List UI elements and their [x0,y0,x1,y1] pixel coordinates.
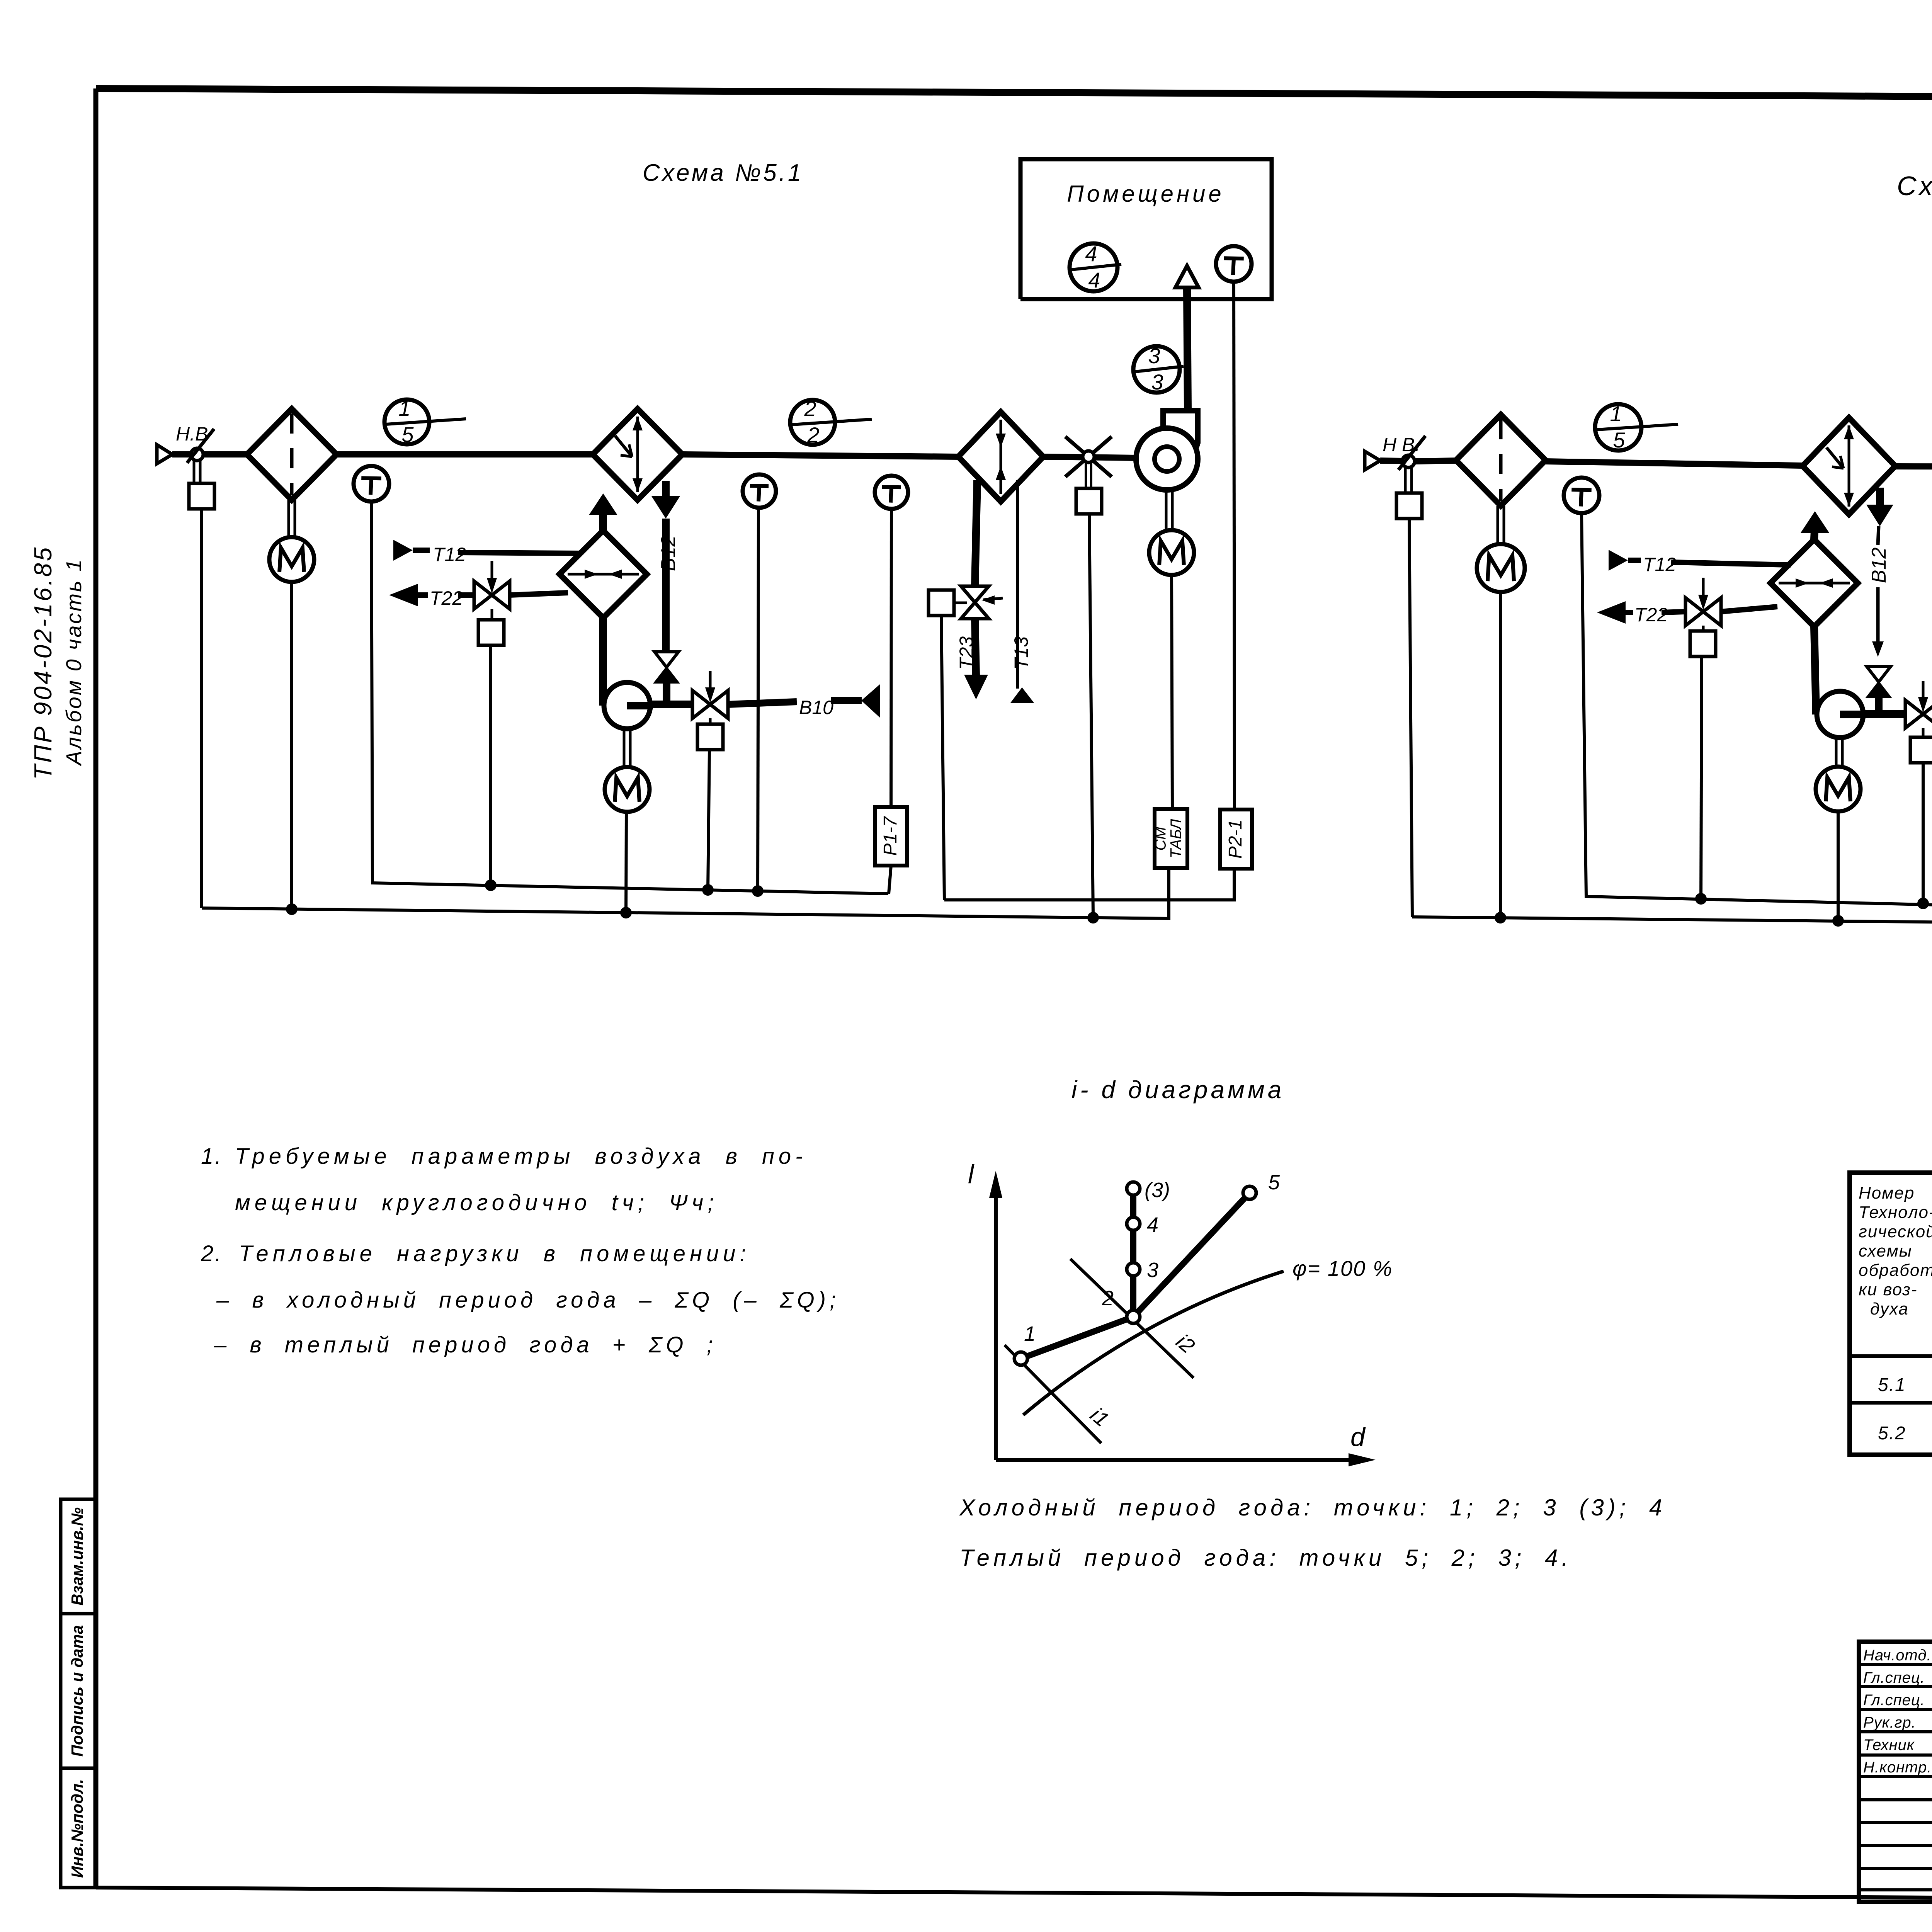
box Р1-7 5.1 [875,807,907,866]
heat recovery unit 5.2 [1770,539,1858,627]
outdoor air inlet Н.В 5.2 [1365,451,1380,470]
svg-text:4: 4 [1088,268,1100,292]
upper bus 5.2 [1582,513,1932,909]
svg-text:1: 1 [398,396,410,420]
sensor line T12 5.1 [393,540,413,561]
svg-text:2: 2 [804,396,816,421]
upper bus 5.1 [371,502,888,894]
pipe B10 5.1 [728,702,797,704]
label circle 1/5 5.2 [1595,404,1641,451]
inlet damper 5.1 [191,448,203,461]
motor M pump 5.2 [1835,738,1838,767]
upper bus right segment 5.1 [944,870,1234,900]
three-way valve T22 5.2 [1685,598,1703,626]
svg-text:Инв.№подл.: Инв.№подл. [68,1779,86,1878]
wire T2 to upper bus 5.1 [758,508,759,890]
svg-text:3: 3 [1151,370,1163,394]
process line i1 [1005,1345,1101,1443]
svg-text:духа: духа [1870,1299,1909,1318]
lower bus 5.1 [202,868,1169,918]
svg-text:Схема №5.1: Схема №5.1 [643,160,803,186]
svg-text:Помещение: Помещение [1067,181,1225,207]
sensor T2 5.1 [743,474,776,508]
wire pump M to lower bus 5.1 [626,812,626,913]
svg-text:(3): (3) [1145,1179,1170,1202]
inlet damper 5.2 [1402,455,1415,468]
main duct 5.1 [203,451,247,457]
process line i2 [1070,1259,1194,1378]
pump discharge to B10 valve 5.2 [1863,710,1906,718]
outdoor air inlet Н.В 5.1 [157,445,172,464]
svg-text:В10: В10 [799,697,833,718]
wire B10 valve to upper bus 5.2 [1922,763,1925,901]
svg-text:Схема № 5.2: Схема № 5.2 [1897,171,1932,201]
wire T3 to Р1-7 5.1 [891,509,891,807]
i-d axes [994,1182,998,1460]
wire T22 valve to upper bus 5.1 [489,645,492,885]
indicator 3/3 5.1 [1133,346,1180,393]
svg-text:– в теплый период года + Σ: – в теплый период года + ΣQ ; [214,1332,717,1357]
svg-text:2: 2 [1102,1287,1114,1310]
wire B10 valve to upper bus 5.1 [708,750,709,889]
wire inlet damper to lower bus 5.2 [1409,519,1412,917]
svg-text:Техник: Техник [1863,1736,1915,1753]
svg-text:В12: В12 [657,536,680,571]
indicator 4/4 room 5.1 [1070,243,1117,291]
svg-text:d: d [1350,1422,1366,1452]
svg-text:Р2-1: Р2-1 [1225,820,1246,859]
wire filter M to lower bus 5.1 [290,582,293,910]
sensor line T13 5.1 [1016,480,1019,689]
wire T22 valve to upper bus 5.2 [1701,656,1702,899]
recovery supply riser up 5.2 [1814,522,1815,539]
motor M fan 5.1 [1165,490,1168,530]
stamp box Инв.№подл. [61,1768,96,1888]
heat recovery unit 5.1 [560,531,647,618]
svg-text:i- d диаграмма: i- d диаграмма [1071,1076,1284,1104]
sensor T1 5.2 [1564,478,1599,513]
svg-text:l: l [968,1160,975,1189]
lower bus 5.2 [1412,917,1932,927]
air filter 5.1 [247,409,337,500]
pump discharge to B10 valve 5.1 [650,701,693,708]
svg-text:3: 3 [1147,1259,1158,1282]
svg-text:Гл.спец.: Гл.спец. [1863,1669,1925,1686]
motor M filter 5.2 [1497,506,1499,544]
svg-text:Взам.инв.№: Взам.инв.№ [68,1507,86,1605]
svg-text:Тепловые нагрузки в помещ: Тепловые нагрузки в помещении: [239,1241,750,1266]
three-way valve B10 5.1 [692,690,710,718]
svg-text:5.1: 5.1 [1878,1375,1906,1395]
main duct 5.2 [1415,461,1456,461]
svg-text:Т22: Т22 [430,587,463,609]
svg-text:СМ: СМ [1152,827,1169,850]
recovery pump 5.1 [599,618,607,706]
sensor T1 5.1 [354,466,389,502]
svg-text:Нач.отд.: Нач.отд. [1863,1647,1932,1664]
check valve B12 5.2 [1867,667,1891,682]
svg-text:5: 5 [1613,428,1625,452]
wire filter M to lower bus 5.2 [1499,592,1502,918]
svg-text:гической: гической [1859,1222,1932,1241]
border frame [96,88,1932,100]
wire pump M to lower bus 5.2 [1837,811,1840,920]
sensor line T22 with valve 5.2 [1597,601,1626,624]
svg-text:1: 1 [1610,401,1622,426]
albums table grid [1850,1173,1932,1455]
check valve B12 5.1 [655,652,679,667]
supply air arrow to room 5.1 [1175,266,1199,287]
svg-text:Технoло-: Технoло- [1859,1203,1932,1222]
network funnel B10 5.1 [861,684,880,718]
recovery supply riser B12 up 5.1 [599,502,607,531]
label circle 2/2 5.1 [790,400,835,445]
svg-text:Альбом 0 часть 1: Альбом 0 часть 1 [61,558,86,767]
junction dots 5.1 [485,879,497,891]
svg-text:Требуемые параметры воздух: Требуемые параметры воздуха в по- [235,1144,807,1169]
three-way valve T22 5.1 [474,581,492,609]
recovery return drop B12 5.2 [1876,488,1884,506]
svg-text:Гл.спец.: Гл.спец. [1863,1692,1925,1709]
svg-text:3: 3 [1148,344,1160,368]
svg-text:φ= 100 %: φ= 100 % [1293,1256,1393,1281]
discharge damper 5.1 [1065,437,1112,477]
junction dots 5.2 [1695,893,1707,905]
svg-text:ки воз-: ки воз- [1859,1280,1918,1299]
supply fan 5.1 [1163,411,1198,447]
svg-text:4: 4 [1147,1213,1158,1236]
svg-text:Р1-7: Р1-7 [880,816,901,856]
svg-text:Рук.гр.: Рук.гр. [1863,1714,1916,1731]
svg-text:5: 5 [401,422,414,447]
sensor T room 5.1 [1216,246,1252,282]
heat exchanger 1 5.2 [1803,418,1895,514]
title block grid [1859,1642,1932,1902]
process bold segments [1021,1317,1133,1359]
svg-text:Подпись и дата: Подпись и дата [68,1625,86,1757]
svg-text:мещении круглогодично tч;: мещении круглогодично tч; Ψч; [235,1190,718,1215]
box СМ ТАБЛ 5.1 [1155,809,1187,868]
svg-text:Т13: Т13 [1010,636,1032,670]
room box 5.1 Помещение [1020,159,1272,299]
sensor line T12 5.2 [1609,550,1628,571]
wire room T to Р2-1 5.1 [1234,282,1235,811]
three-way valve B10 5.2 [1905,700,1923,728]
svg-text:Холодный период года: точки: Холодный период года: точки: 1; 2; 3 (3)… [959,1495,1666,1520]
svg-text:ТАБЛ: ТАБЛ [1168,819,1185,858]
motor M pump 5.1 [623,729,626,767]
svg-text:Н.контр.: Н.контр. [1863,1759,1932,1776]
svg-text:5.2: 5.2 [1878,1423,1906,1444]
heating line T23 with valve 5.1 [975,480,977,586]
wire fan M to СМ ТАБЛ 5.1 [1172,575,1172,809]
svg-text:Номер: Номер [1859,1184,1915,1202]
svg-text:2: 2 [807,423,819,447]
recovery pump 5.2 [1814,627,1816,714]
sensor T3 5.1 [875,476,908,509]
valve T23 5.1 [961,586,989,602]
sensor line T22 with valve 5.1 [389,584,418,606]
svg-text:схемы: схемы [1859,1242,1912,1260]
svg-text:В12: В12 [1868,548,1890,583]
wire discharge damper to lower bus 5.1 [1089,514,1093,916]
svg-text:Теплый период года: точки: Теплый период года: точки 5; 2; 3; 4. [959,1545,1572,1571]
svg-text:– в холодный период года –: – в холодный период года – ΣQ (– ΣQ); [216,1287,840,1313]
svg-text:ТПР 904-02-16.85: ТПР 904-02-16.85 [29,546,57,780]
svg-text:обработ-: обработ- [1859,1261,1932,1280]
air filter 5.2 [1456,415,1546,506]
svg-text:4: 4 [1085,241,1097,266]
recovery return drop 5.1 [662,481,670,506]
svg-text:1.: 1. [201,1144,223,1169]
stamp box Взам.инв.№ [61,1499,96,1614]
heat exchanger 1 5.1 [593,409,682,500]
svg-text:2.: 2. [201,1241,223,1266]
wire inlet damper to lower bus 5.1 [200,509,203,908]
wire T23 valve square to upper bus 5.1 [941,616,944,900]
state points [1014,1352,1027,1365]
svg-text:1: 1 [1024,1322,1036,1345]
label circle 1/5 5.1 [384,400,429,444]
heat exchanger 2 5.1 [958,412,1043,502]
svg-text:Т23: Т23 [956,636,977,670]
box Р2-1 5.1 [1220,810,1252,869]
motor M filter 5.1 [287,500,290,537]
saturation curve phi=100% [1023,1271,1284,1415]
svg-text:5: 5 [1268,1171,1280,1194]
stamp box Подпись и дата [61,1614,96,1768]
